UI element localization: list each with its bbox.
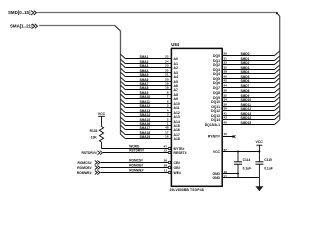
wire SMD2 to pin DQ2	[222, 60, 279, 64]
svg-text:26: 26	[164, 159, 168, 163]
svg-text:12: 12	[164, 149, 168, 153]
svg-text:VCC: VCC	[256, 140, 264, 144]
svg-text:37: 37	[224, 148, 228, 152]
svg-text:27: 27	[224, 174, 228, 178]
svg-text:VCC: VCC	[213, 150, 221, 154]
svg-text:A0: A0	[174, 57, 178, 61]
svg-text:SMD12: SMD12	[241, 107, 252, 111]
svg-text:SMA17: SMA17	[140, 126, 151, 130]
svg-text:A7: A7	[174, 88, 178, 92]
svg-text:18: 18	[165, 86, 169, 90]
svg-text:SMD10: SMD10	[241, 98, 252, 102]
wire SMA10 to pin A9	[121, 94, 172, 98]
off-page connector RSTDRV#	[81, 151, 102, 155]
svg-text:SMA12: SMA12	[140, 104, 151, 108]
wire SMD15 to pin DQ15/A-1	[222, 120, 279, 124]
svg-text:SMA19: SMA19	[140, 135, 151, 139]
wire SMA11 to pin A10	[121, 99, 172, 103]
wire SMA3 to pin A2	[121, 63, 172, 67]
wire SMD1 to pin DQ1	[222, 56, 279, 60]
svg-text:0.1uF: 0.1uF	[264, 166, 273, 170]
bus SMA[1..21] vertical segment	[120, 31, 122, 135]
wire SMD5 to pin DQ5	[222, 74, 279, 78]
power VCC (decoupling)	[256, 140, 264, 152]
svg-text:46: 46	[224, 170, 228, 174]
bus SMA corner segment	[115, 26, 120, 31]
wire ROMOE# to pin OE#	[101, 167, 169, 169]
bus SMD corner segment	[277, 13, 280, 17]
svg-text:DQ8: DQ8	[213, 91, 220, 95]
svg-text:VCC: VCC	[98, 112, 106, 116]
capacitor C115	[255, 152, 263, 178]
svg-text:RY/BY#: RY/BY#	[208, 134, 220, 138]
off-page connector ROMOE#	[77, 166, 100, 170]
wire ROMWE# to pin WE#	[101, 172, 169, 174]
svg-text:48: 48	[165, 126, 169, 130]
wire SMD11 to pin DQ11	[222, 102, 279, 106]
svg-text:SMA[1..21]: SMA[1..21]	[10, 23, 33, 28]
svg-text:ROMWE#: ROMWE#	[77, 171, 92, 175]
pin bubble OE#	[168, 166, 171, 169]
bus SMD[0..15] vertical segment	[279, 16, 281, 120]
capacitor C114	[234, 152, 242, 178]
wire SMA15 to pin A14	[121, 117, 172, 121]
svg-text:SMD15: SMD15	[241, 121, 252, 125]
svg-text:RESET#: RESET#	[174, 151, 187, 155]
wire SMD9 to pin DQ9	[222, 93, 279, 97]
wire SMD10 to pin DQ10	[222, 97, 279, 101]
wire SMD3 to pin DQ3	[222, 65, 279, 69]
svg-text:CE#: CE#	[174, 161, 181, 165]
svg-text:A11: A11	[174, 106, 180, 110]
svg-text:SMA8: SMA8	[140, 86, 149, 90]
svg-text:DQ7: DQ7	[213, 86, 220, 90]
junction VCC rail / C114	[237, 151, 239, 153]
svg-text:16: 16	[165, 135, 169, 139]
svg-text:C114: C114	[243, 158, 251, 162]
svg-text:21: 21	[165, 73, 169, 77]
svg-text:10K: 10K	[91, 136, 98, 140]
no-connect mark	[233, 135, 236, 138]
wire ROMCS# to pin CE#	[101, 162, 169, 164]
ground	[255, 178, 263, 192]
svg-text:RSTDRV#: RSTDRV#	[129, 149, 144, 153]
svg-text:SMA3: SMA3	[140, 64, 149, 68]
svg-text:DQ2: DQ2	[213, 63, 220, 67]
wire GND pin 46	[222, 173, 238, 175]
svg-text:A2: A2	[174, 66, 178, 70]
svg-text:28: 28	[164, 164, 168, 168]
wire SMA13 to pin A12	[121, 108, 172, 112]
svg-text:OE#: OE#	[174, 166, 181, 170]
bus SMA[1..21] horizontal segment	[39, 25, 115, 27]
wire SMA7 to pin A6	[121, 81, 172, 85]
svg-text:SMA14: SMA14	[140, 113, 151, 117]
svg-text:A9: A9	[174, 97, 178, 101]
wire SMD14 to pin DQ14	[222, 115, 279, 119]
wire GND pin 27 / ground rail	[222, 177, 259, 179]
wire SMA16 to pin A15	[121, 121, 172, 125]
svg-text:34: 34	[224, 98, 228, 102]
wire RY/BY# pin (no connect)	[222, 136, 234, 138]
svg-text:C115: C115	[264, 158, 272, 162]
pin bubble WE#	[168, 171, 171, 174]
svg-text:SMD2: SMD2	[241, 61, 250, 65]
svg-text:DQ0: DQ0	[213, 54, 220, 58]
junction VCC rail / C115	[258, 151, 260, 153]
wire SMA18 to pin A17	[121, 130, 172, 134]
svg-text:ROMCS#: ROMCS#	[77, 161, 91, 165]
wire SMD6 to pin DQ6	[222, 78, 279, 82]
svg-text:43: 43	[224, 116, 228, 120]
wire SMA5 to pin A4	[121, 72, 172, 76]
wire SMA6 to pin A5	[121, 77, 172, 81]
svg-text:R131: R131	[90, 129, 98, 133]
svg-text:DQ4: DQ4	[213, 72, 220, 76]
svg-text:30: 30	[224, 89, 228, 93]
wire RSTDRV# to pin RESET#	[103, 152, 168, 154]
svg-text:A16: A16	[174, 128, 180, 132]
svg-text:WE#: WE#	[174, 171, 181, 175]
off-page connector SMD bus	[31, 11, 36, 15]
power VCC (pull-up)	[98, 112, 106, 127]
svg-text:SMD4: SMD4	[241, 70, 250, 74]
wire SMA14 to pin A13	[121, 112, 172, 116]
bus SMD[0..15] horizontal segment	[37, 12, 277, 14]
pin bubble CE#	[168, 161, 171, 164]
svg-text:44: 44	[224, 84, 228, 88]
svg-text:RSTDRV#: RSTDRV#	[81, 151, 96, 155]
wire SMA17 to pin A16	[121, 125, 172, 129]
svg-text:DQ15/A-1: DQ15/A-1	[205, 123, 220, 127]
svg-text:DQ12: DQ12	[211, 109, 220, 113]
svg-text:ROMWE#: ROMWE#	[129, 169, 144, 173]
svg-text:DQ14: DQ14	[211, 118, 220, 122]
svg-text:42: 42	[224, 79, 228, 83]
wire SMA2 to pin A1	[121, 59, 172, 63]
wire WORD to pin BYTE#	[102, 148, 169, 150]
svg-text:GND: GND	[212, 172, 220, 176]
svg-text:SMA10: SMA10	[140, 95, 151, 99]
wire SMA4 to pin A3	[121, 68, 172, 72]
svg-text:DQ6: DQ6	[213, 81, 220, 85]
wire SMD0 to pin DQ0	[222, 51, 279, 55]
svg-text:23: 23	[165, 64, 169, 68]
off-page connector SMA bus	[32, 24, 37, 28]
IC U84 flash memory body	[171, 48, 222, 186]
wire SMD8 to pin DQ8	[222, 88, 279, 92]
svg-text:15: 15	[224, 132, 228, 136]
junction GND wire / C114 lead	[237, 173, 239, 175]
wire SMA9 to pin A8	[121, 90, 172, 94]
svg-text:SMD6: SMD6	[241, 79, 250, 83]
junction SMD bus corner	[276, 12, 278, 14]
svg-text:SMD[0..15]: SMD[0..15]	[8, 10, 31, 15]
svg-text:SMD7: SMD7	[241, 84, 250, 88]
wire VCC pin to decoupling rail	[222, 151, 259, 153]
svg-text:33: 33	[224, 61, 228, 65]
svg-text:SMA1: SMA1	[140, 55, 149, 59]
svg-text:45: 45	[224, 121, 228, 125]
svg-text:ROMCS#: ROMCS#	[129, 159, 143, 163]
svg-text:SMD8: SMD8	[241, 89, 250, 93]
svg-text:A13: A13	[174, 115, 180, 119]
svg-text:A18: A18	[174, 137, 180, 141]
svg-text:29: 29	[224, 52, 228, 56]
pin bubble BYTE#	[168, 147, 171, 150]
svg-text:11: 11	[164, 169, 168, 173]
svg-text:SMA5: SMA5	[140, 73, 149, 77]
svg-text:SMD14: SMD14	[241, 116, 252, 120]
off-page connector ROMWE#	[77, 171, 100, 175]
wire SMA12 to pin A11	[121, 103, 172, 107]
svg-text:ROMOE#: ROMOE#	[77, 166, 91, 170]
svg-text:25: 25	[165, 55, 169, 59]
svg-text:29LV800BB TSOP48: 29LV800BB TSOP48	[170, 188, 204, 192]
wire SMD12 to pin DQ12	[222, 106, 279, 110]
pin bubble RESET#	[168, 151, 171, 154]
wire SMA8 to pin A7	[121, 85, 172, 89]
svg-text:39: 39	[224, 107, 228, 111]
svg-text:SMD0: SMD0	[241, 52, 250, 56]
wire SMA19 to pin A18	[121, 134, 172, 138]
wire SMD4 to pin DQ4	[222, 69, 279, 73]
svg-text:GND: GND	[212, 176, 220, 180]
wire SMD13 to pin DQ13	[222, 111, 279, 115]
svg-text:DQ10: DQ10	[211, 100, 220, 104]
wire SMD7 to pin DQ7	[222, 83, 279, 87]
svg-text:38: 38	[224, 70, 228, 74]
svg-text:U84: U84	[171, 42, 179, 47]
resistor R131	[99, 127, 103, 149]
wire SMA1 to pin A0	[121, 54, 172, 58]
svg-text:A4: A4	[174, 75, 178, 79]
svg-text:ROMOE#: ROMOE#	[129, 164, 143, 168]
off-page connector ROMCS#	[77, 161, 100, 165]
svg-text:0.1uF: 0.1uF	[243, 166, 252, 170]
